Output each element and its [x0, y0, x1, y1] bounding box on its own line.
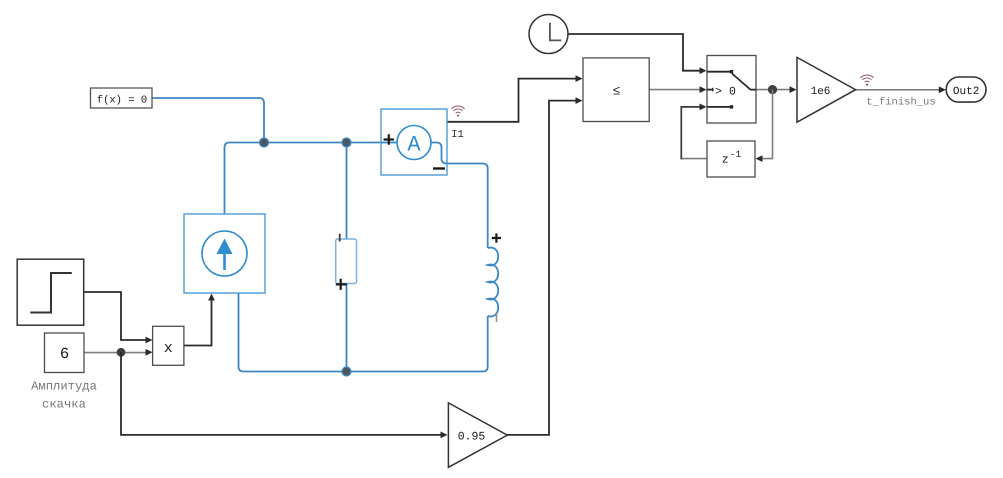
wifi badge t_finish_us [860, 75, 873, 86]
relational operator block lte [583, 58, 649, 122]
constant block 6 [45, 333, 85, 373]
wire ammeter I1 to lte in1 [447, 75, 583, 122]
svg-text:≤: ≤ [613, 84, 621, 99]
svg-text:6: 6 [60, 345, 69, 363]
svg-text:скачка: скачка [42, 398, 86, 412]
wire unit delay out to switch in3 [681, 104, 708, 160]
wire lte out to switch in2 [649, 86, 706, 93]
wire top rail node A to ammeter plus [264, 142, 381, 144]
wire switch out to gain1e6 [756, 86, 797, 93]
gain block 1e6 [797, 57, 856, 122]
wire junction down to unit delay input [756, 90, 773, 162]
svg-text:I1: I1 [451, 129, 464, 141]
svg-text:z: z [722, 154, 729, 167]
svg-text:1e6: 1e6 [811, 86, 831, 98]
wire product out to current source control [184, 294, 215, 346]
wire resistor bottom to node C [346, 284, 348, 372]
svg-text:f(x) = 0: f(x) = 0 [97, 95, 147, 107]
node switch output junction [768, 85, 777, 94]
wire node B down to resistor top [346, 143, 348, 240]
svg-text:Амплитуда: Амплитуда [31, 380, 97, 394]
svg-text:-1: -1 [730, 149, 742, 160]
resistor block [336, 234, 357, 290]
wire const6 to product in2 [84, 349, 152, 356]
svg-text:A: A [407, 133, 421, 158]
wire solver fx to node A [152, 98, 264, 143]
outport Out2 [946, 77, 986, 102]
svg-text:x: x [164, 340, 173, 357]
switch block [707, 56, 756, 124]
solver block f(x)=0 [91, 88, 153, 108]
wire gain1e6 to Out2 [856, 86, 946, 93]
svg-text:t_finish_us: t_finish_us [866, 97, 935, 109]
product block x [153, 326, 184, 365]
wire ammeter minus to inductor plus [447, 164, 488, 249]
node A junction [260, 138, 269, 147]
svg-text:Out2: Out2 [953, 86, 979, 98]
wire gain095 to lte in2 [507, 97, 583, 435]
ammeter block [381, 109, 447, 175]
svg-text:0.95: 0.95 [458, 430, 486, 443]
step block [17, 259, 84, 325]
wire clock to switch in1 [568, 34, 706, 74]
svg-text:> 0: > 0 [715, 85, 736, 98]
node C junction [342, 367, 351, 376]
node B junction [342, 138, 351, 147]
node const6 junction [117, 348, 126, 357]
unit delay block z^-1 [707, 141, 755, 177]
clock block [529, 15, 568, 54]
gain block 0.95 [448, 403, 507, 467]
current source block [184, 214, 265, 293]
wire step to product in1 [84, 292, 153, 343]
wifi badge I1 [451, 106, 464, 117]
inductor coil [488, 233, 501, 322]
wire junction to gain095 input [121, 352, 448, 438]
label Amplituda skachka [31, 380, 97, 412]
wire inductor bottom to bottom rail to current source minus [239, 294, 488, 372]
wire current source plus up to node A [225, 143, 265, 215]
